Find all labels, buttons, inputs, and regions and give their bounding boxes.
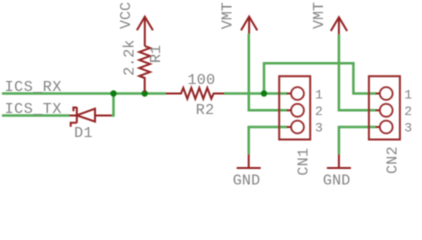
svg-text:3: 3 — [404, 121, 412, 136]
power symbol VCC arrow — [137, 17, 153, 46]
resistor R1 — [139, 46, 150, 92]
svg-text:GND: GND — [233, 172, 261, 189]
svg-text:1: 1 — [315, 88, 323, 103]
svg-text:GND: GND — [323, 172, 351, 189]
svg-text:ICS_TX: ICS_TX — [5, 101, 62, 118]
svg-text:3: 3 — [315, 121, 323, 136]
diode D1 (schottky) — [70, 107, 112, 127]
svg-text:100: 100 — [188, 72, 216, 89]
svg-text:2: 2 — [404, 104, 412, 119]
svg-text:R2: R2 — [196, 102, 215, 119]
connector CN1 pin circles — [291, 87, 304, 133]
node junction dot ICS_RX / D1 — [110, 90, 116, 96]
svg-text:CN1: CN1 — [296, 148, 313, 176]
wire ICS_TX horizontal net — [2, 114, 70, 117]
svg-text:R1: R1 — [148, 45, 165, 63]
wire VMT1 vertical to CN1 pin 2 — [249, 34, 287, 111]
wire CN2 pin 3 to GND — [339, 127, 377, 154]
svg-text:2: 2 — [315, 104, 323, 119]
wire R2 output to CN1 pin 1 — [224, 92, 287, 95]
power symbol VMT1 arrow — [241, 17, 257, 34]
node junction dot main net / CN2 branch — [261, 90, 267, 96]
svg-text:VCC: VCC — [118, 2, 135, 29]
power symbol VMT2 arrow — [331, 17, 347, 34]
node junction dot ICS_RX / R1 — [142, 90, 148, 96]
ground symbol GND1 — [237, 154, 261, 168]
wire diode anode up to ICS_RX junction — [112, 94, 114, 116]
connector CN1 body — [279, 76, 310, 139]
connector CN2 body — [369, 76, 400, 139]
resistor R2 — [166, 88, 224, 99]
svg-text:2.2k: 2.2k — [121, 40, 138, 76]
wire CN1 pin 3 to GND — [249, 127, 288, 154]
wire VMT2 vertical to CN2 pin 2 — [339, 34, 377, 110]
svg-text:1: 1 — [404, 88, 412, 103]
svg-text:VMT: VMT — [311, 2, 328, 29]
connector CN2 pin circles — [380, 87, 393, 133]
svg-text:ICS_RX: ICS_RX — [5, 79, 62, 96]
wire upper route from junction to CN2 pin 1 — [264, 63, 376, 93]
ground symbol GND2 — [327, 154, 351, 168]
wire ICS_RX horizontal net — [2, 92, 166, 95]
connector CN1 pin stubs — [287, 94, 291, 128]
svg-text:VMT: VMT — [220, 2, 237, 29]
svg-text:D1: D1 — [74, 125, 93, 142]
connector CN2 pin stubs — [376, 94, 380, 128]
svg-text:CN2: CN2 — [385, 146, 402, 174]
